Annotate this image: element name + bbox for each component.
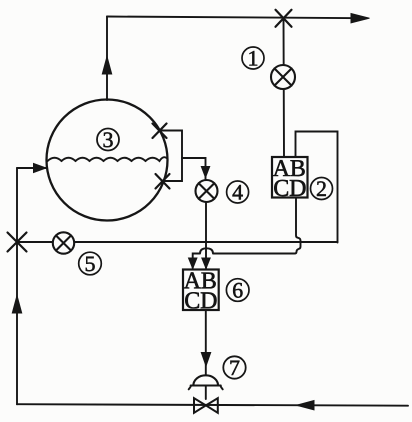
wire steam riser from drum top — [106, 17, 108, 101]
label 6 (circled) — [226, 279, 249, 302]
label 3 (circled) — [97, 129, 119, 151]
wire steam header (top horizontal pipe) — [107, 17, 362, 19]
transmitter 5 (circle-X) — [53, 232, 74, 253]
arrow into transmitter 4 — [201, 167, 209, 178]
arrow feed into drum — [34, 164, 47, 173]
level gauge bracket on drum — [160, 131, 182, 182]
wire hop over vertical line — [200, 248, 213, 253]
wire actuator stem — [205, 386, 207, 400]
control valve body (bowtie) — [194, 398, 218, 413]
water level wavy line — [48, 157, 167, 161]
wire feedwater supply (bottom pipe) — [17, 404, 408, 406]
arrow feedwater flow left — [297, 401, 315, 410]
label 7 (circled) — [223, 356, 245, 378]
actuator diaphragm dome 7 — [193, 375, 218, 385]
arrow into controller 6 right input — [202, 258, 210, 269]
wire feed into drum — [17, 167, 47, 169]
arrow steam flow right — [351, 14, 370, 23]
wire into controller 6 left input — [193, 254, 200, 269]
wire gauge to transmitter 4 — [182, 158, 206, 179]
wire transmitter 1 drop line — [283, 18, 286, 158]
wire unit 2 output to controller 6 (with crossover jogs) — [214, 198, 301, 254]
node X upper drum tap — [153, 124, 167, 139]
drum vessel (circle) — [47, 100, 168, 221]
wire controller 6 output to valve actuator — [205, 310, 207, 375]
transmitter 1 (circle-X) — [271, 65, 295, 89]
arrow feedwater up — [12, 296, 21, 314]
controller 6 (box ABCD) — [183, 270, 219, 311]
label 1 (circled) — [242, 47, 264, 69]
arrow into actuator — [201, 353, 210, 367]
label 5 (circled) — [79, 252, 102, 275]
wire feedwater signal line (horizontal) — [17, 241, 338, 243]
arrow into controller 6 left input — [189, 258, 197, 269]
wire feedwater riser (left vertical pipe) — [16, 168, 18, 404]
node X lower drum tap — [156, 174, 170, 189]
label 2 (circled) — [311, 178, 333, 200]
orifice X on steam header — [276, 10, 292, 27]
label 4 (circled) — [227, 181, 249, 203]
arrow steam flow up — [102, 57, 111, 75]
wire feedback loop to unit 2 top — [296, 132, 338, 243]
node X feedwater orifice junction — [8, 233, 27, 252]
computing unit 2 (box ABCD) — [272, 157, 308, 198]
transmitter 4 (circle-X) — [196, 180, 218, 202]
wire transmitter 4 down to controller 6 — [205, 202, 207, 268]
